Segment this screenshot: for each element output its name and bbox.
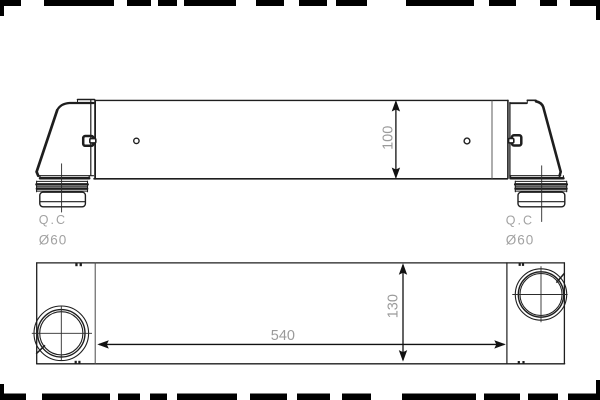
mounting peg marks bbox=[75, 263, 525, 364]
core body top edge bbox=[95, 99, 508, 101]
left tank top ridge bbox=[78, 99, 95, 101]
plan right box left edge bbox=[506, 263, 508, 364]
body left end plate lines bbox=[90, 100, 92, 175]
right pipe centerline bbox=[541, 166, 543, 222]
right tank slanted edge bbox=[536, 101, 561, 175]
left port circles bbox=[34, 306, 89, 361]
svg-text:100: 100 bbox=[381, 126, 397, 150]
left tank bottom edge bbox=[38, 175, 93, 177]
left hose collar bbox=[40, 192, 86, 207]
plan right box right edge bbox=[563, 263, 565, 364]
right port circles bbox=[515, 269, 566, 320]
svg-text:540: 540 bbox=[271, 328, 295, 344]
right hose collar bbox=[518, 192, 565, 207]
border dash bottom row bbox=[0, 380, 600, 400]
svg-text:130: 130 bbox=[386, 294, 402, 318]
right port weld tick bbox=[556, 273, 564, 283]
right clip bracket bbox=[509, 135, 522, 145]
svg-text:Ø60: Ø60 bbox=[506, 233, 535, 248]
body right end plate lines bbox=[507, 100, 509, 178]
left hose ribs bbox=[37, 180, 88, 182]
plan left box left edge bbox=[36, 263, 38, 364]
left pipe centerline bbox=[61, 164, 63, 212]
right hose ribs bbox=[515, 180, 566, 182]
right tank top edge bbox=[510, 102, 526, 104]
right tank flange bbox=[511, 177, 564, 180]
plan body bottom edge bbox=[37, 363, 565, 365]
right mounting hole bbox=[464, 138, 470, 144]
right tank top ridge bbox=[527, 99, 536, 101]
svg-text:Q.C: Q.C bbox=[39, 213, 67, 227]
plan left box right edge bbox=[94, 263, 96, 364]
plan body top edge bbox=[37, 262, 565, 264]
left clip bracket bbox=[83, 136, 96, 146]
svg-text:Q.C: Q.C bbox=[506, 214, 534, 228]
left mounting hole bbox=[134, 138, 139, 143]
inner core line right bbox=[491, 101, 493, 179]
left tank flange bbox=[40, 177, 89, 180]
right tank bottom edge bbox=[510, 175, 561, 177]
dimension 100 line bbox=[392, 100, 400, 179]
left port weld tick bbox=[36, 345, 45, 354]
left port crosshair bbox=[32, 306, 92, 360]
left tank slanted edge bbox=[37, 110, 58, 176]
border dash top row bbox=[0, 0, 600, 20]
left tank top edge bbox=[57, 103, 93, 110]
dimension 130 line bbox=[399, 263, 407, 361]
core body bottom edge bbox=[94, 178, 508, 180]
svg-text:Ø60: Ø60 bbox=[39, 233, 68, 248]
right port crosshair bbox=[512, 266, 567, 322]
dimension 540 line bbox=[97, 340, 506, 348]
